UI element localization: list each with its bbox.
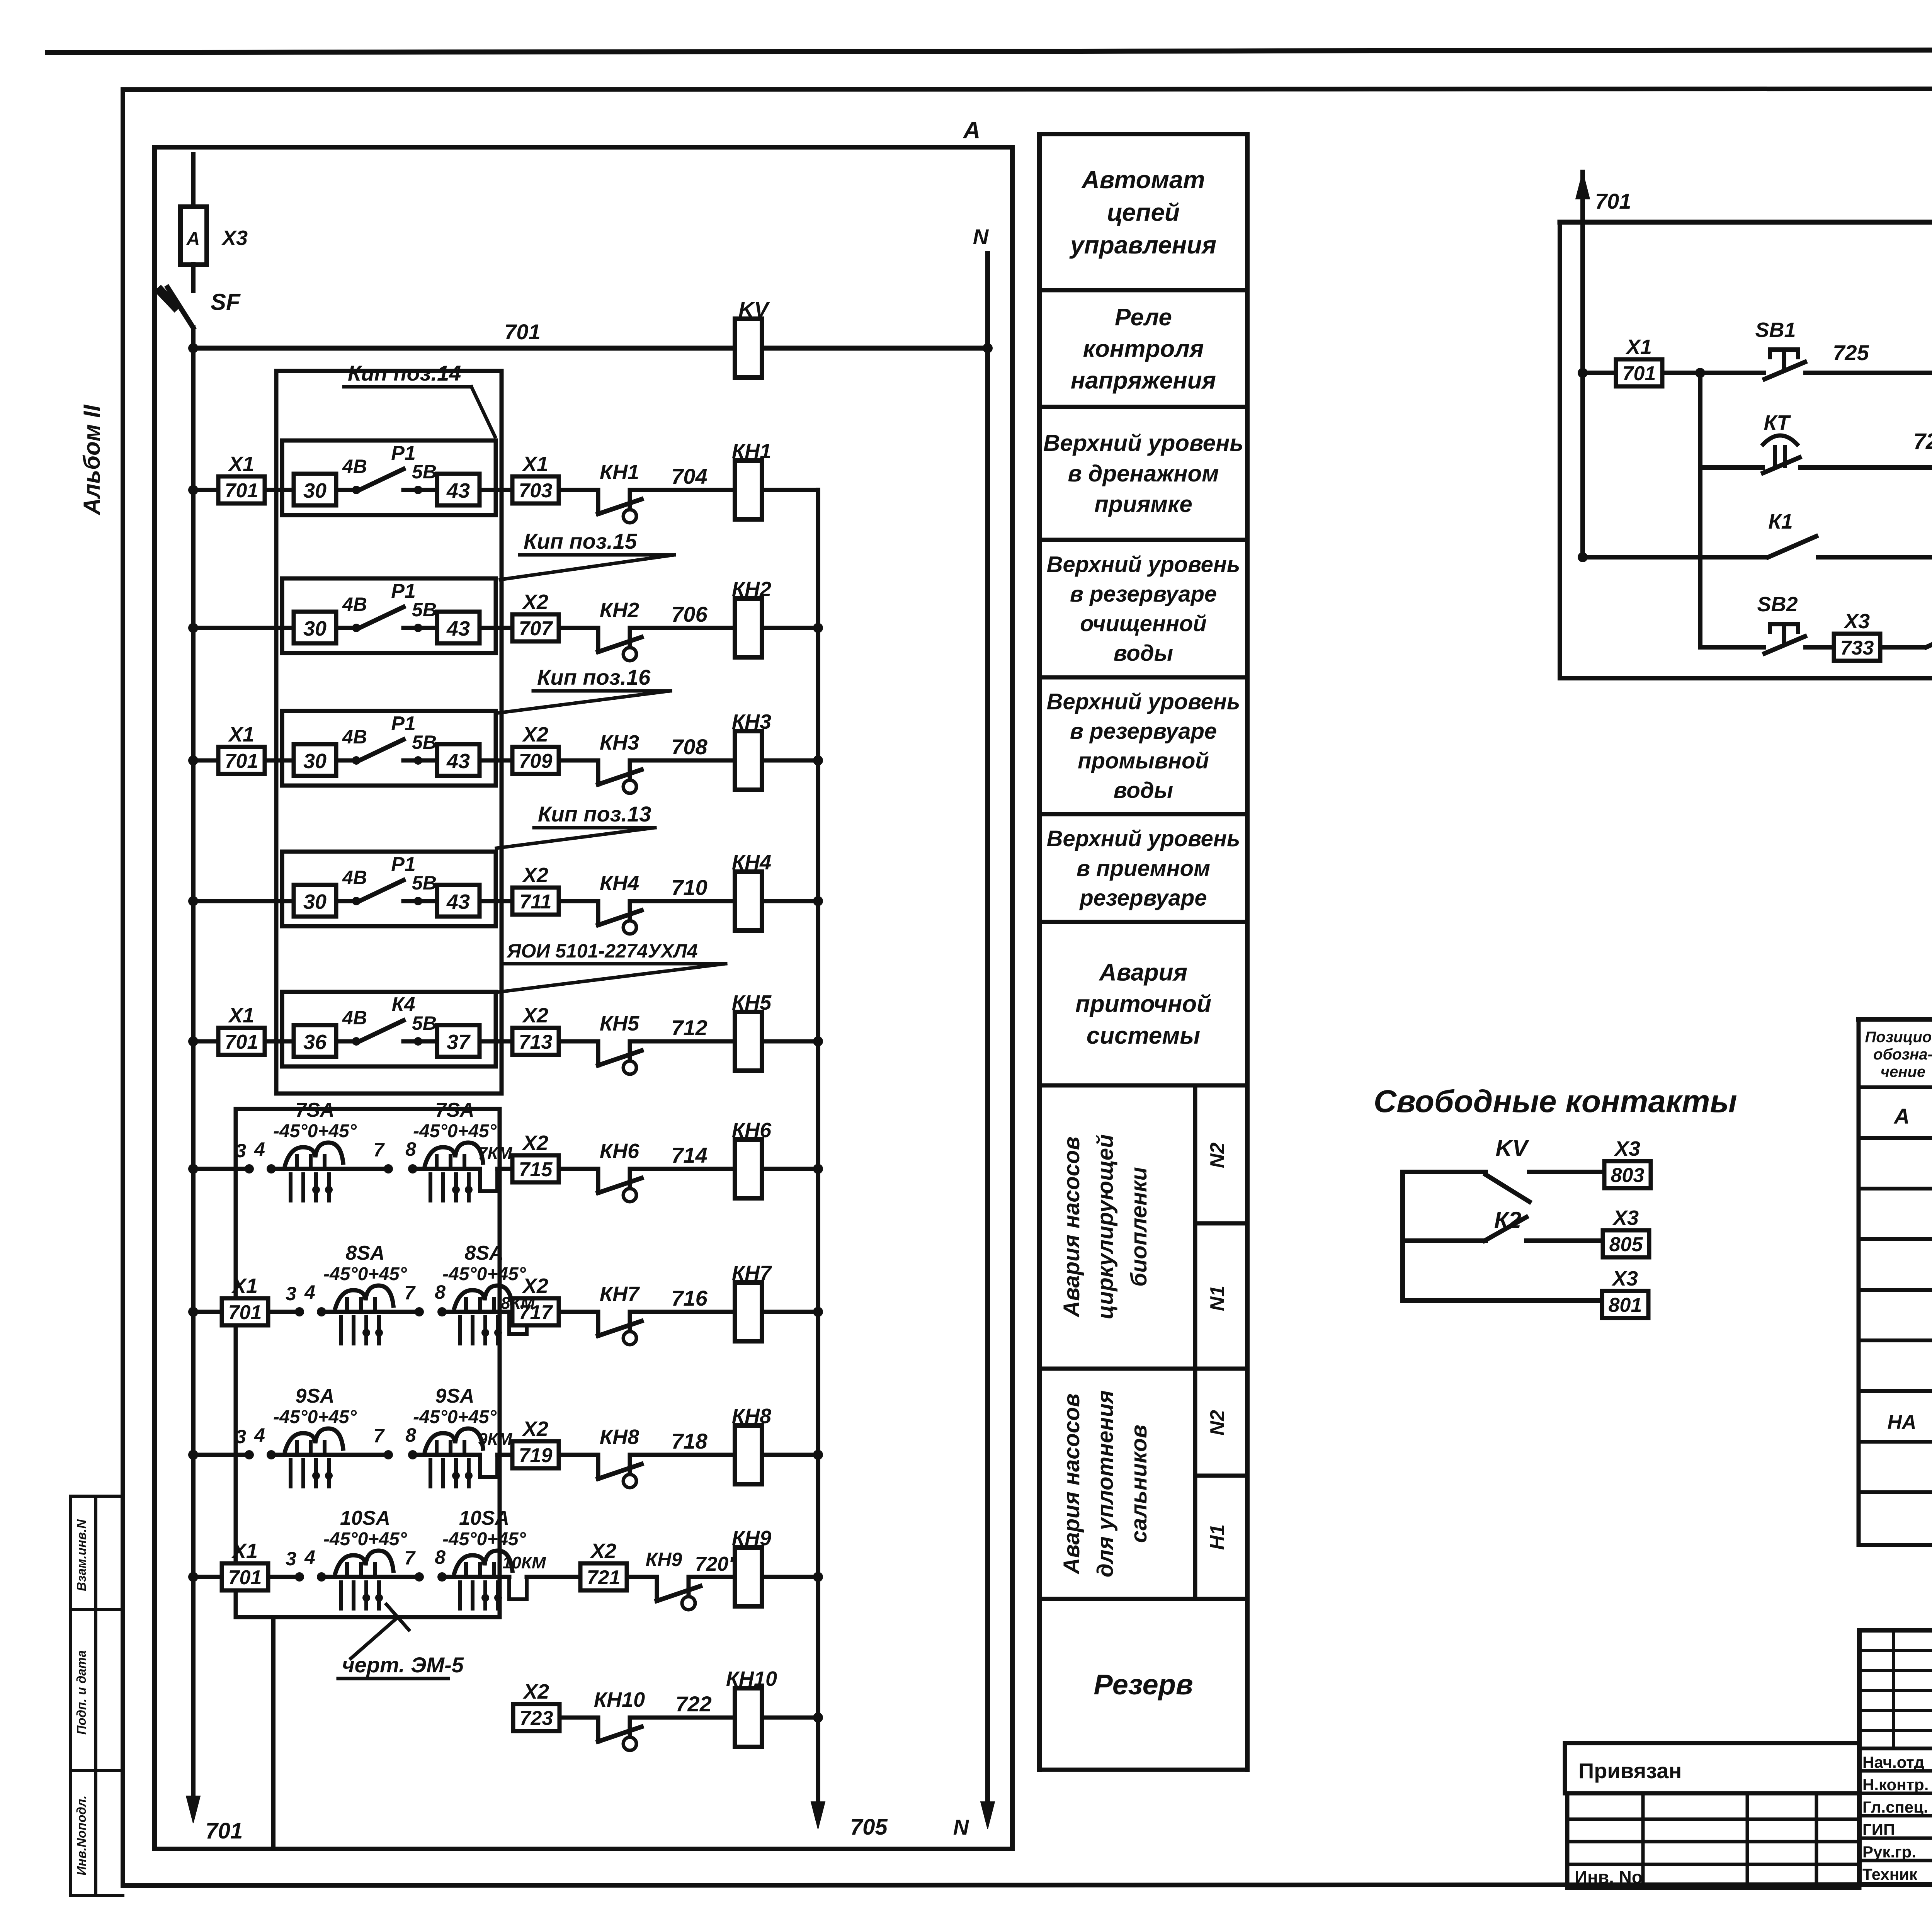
svg-text:4: 4 <box>304 1546 315 1568</box>
svg-text:Р1: Р1 <box>391 853 416 876</box>
svg-text:8: 8 <box>435 1281 446 1303</box>
svg-text:Техник: Техник <box>1862 1865 1918 1883</box>
svg-text:4В: 4В <box>342 1007 367 1029</box>
svg-text:КН5: КН5 <box>732 991 772 1014</box>
svg-text:Х3: Х3 <box>1612 1206 1639 1230</box>
svg-text:725: 725 <box>1833 340 1869 365</box>
svg-text:КН9: КН9 <box>732 1527 771 1550</box>
svg-text:сальников: сальников <box>1126 1425 1151 1543</box>
svg-text:3: 3 <box>286 1283 296 1304</box>
svg-text:Х1: Х1 <box>231 1539 258 1563</box>
svg-text:Х1: Х1 <box>228 452 254 476</box>
svg-text:-45°0+45°: -45°0+45° <box>323 1529 407 1549</box>
svg-text:Х2: Х2 <box>522 1004 548 1027</box>
svg-text:733: 733 <box>1840 637 1874 659</box>
svg-text:ГИП: ГИП <box>1862 1820 1895 1838</box>
svg-text:КН10: КН10 <box>726 1667 777 1690</box>
svg-text:4В: 4В <box>342 456 367 477</box>
svg-text:43: 43 <box>446 890 470 913</box>
svg-text:Х3: Х3 <box>1843 610 1870 633</box>
svg-text:КН7: КН7 <box>600 1282 640 1306</box>
svg-text:Нач.отд: Нач.отд <box>1862 1753 1924 1771</box>
svg-text:30: 30 <box>303 890 327 913</box>
svg-text:8SA: 8SA <box>464 1242 503 1264</box>
svg-text:КН3: КН3 <box>732 710 771 733</box>
svg-text:КН2: КН2 <box>600 599 639 622</box>
svg-text:Р1: Р1 <box>391 442 416 464</box>
svg-text:КН5: КН5 <box>600 1012 639 1035</box>
svg-text:Х3: Х3 <box>1611 1267 1638 1290</box>
svg-text:3: 3 <box>286 1548 296 1570</box>
svg-text:Авария насосов: Авария насосов <box>1059 1393 1084 1575</box>
svg-text:706: 706 <box>671 602 707 626</box>
svg-text:10КМ: 10КМ <box>502 1553 546 1572</box>
svg-text:воды: воды <box>1114 778 1173 803</box>
svg-text:3: 3 <box>235 1140 246 1162</box>
svg-text:КН4: КН4 <box>600 872 639 895</box>
svg-text:721: 721 <box>587 1566 621 1589</box>
svg-text:Рук.гр.: Рук.гр. <box>1862 1843 1916 1861</box>
svg-text:обозна-: обозна- <box>1873 1046 1932 1063</box>
svg-text:N2: N2 <box>1206 1143 1229 1168</box>
svg-text:КН6: КН6 <box>732 1119 772 1142</box>
svg-text:Х2: Х2 <box>522 864 548 887</box>
svg-text:НА: НА <box>1887 1411 1916 1434</box>
svg-text:-45°0+45°: -45°0+45° <box>442 1264 526 1284</box>
svg-text:701: 701 <box>225 1031 259 1053</box>
svg-text:Автомат: Автомат <box>1081 166 1205 194</box>
svg-text:Инв. No: Инв. No <box>1575 1867 1643 1887</box>
svg-text:708: 708 <box>671 735 707 759</box>
svg-text:Х2: Х2 <box>590 1539 616 1563</box>
svg-text:Х1: Х1 <box>228 1004 254 1027</box>
svg-text:SB1: SB1 <box>1755 318 1796 342</box>
svg-text:промывной: промывной <box>1078 748 1209 774</box>
svg-text:чение: чение <box>1881 1063 1925 1080</box>
svg-text:очищенной: очищенной <box>1080 611 1207 636</box>
svg-text:Подп. и дата: Подп. и дата <box>74 1650 88 1735</box>
svg-text:30: 30 <box>303 617 327 640</box>
svg-text:цепей: цепей <box>1107 198 1180 226</box>
svg-text:803: 803 <box>1611 1164 1645 1187</box>
svg-text:N1: N1 <box>1206 1286 1229 1311</box>
svg-text:7SA: 7SA <box>435 1099 474 1121</box>
svg-text:7: 7 <box>373 1139 385 1161</box>
svg-text:KV: KV <box>1495 1135 1529 1161</box>
svg-text:Альбом II: Альбом II <box>79 404 105 515</box>
svg-text:9SA: 9SA <box>435 1385 474 1407</box>
svg-text:SF: SF <box>211 289 241 315</box>
svg-text:-45°0+45°: -45°0+45° <box>273 1407 357 1427</box>
svg-text:Н.контр.: Н.контр. <box>1862 1776 1929 1794</box>
svg-text:напряжения: напряжения <box>1071 367 1216 394</box>
svg-text:722: 722 <box>675 1692 711 1716</box>
svg-text:Кип поз.14: Кип поз.14 <box>348 361 461 385</box>
svg-text:Верхний уровень: Верхний уровень <box>1043 430 1243 456</box>
svg-text:KV: KV <box>738 297 770 321</box>
svg-text:Верхний уровень: Верхний уровень <box>1047 689 1240 714</box>
svg-text:Верхний уровень: Верхний уровень <box>1047 826 1240 851</box>
svg-text:8SA: 8SA <box>345 1242 384 1264</box>
svg-text:К4: К4 <box>392 993 415 1016</box>
svg-text:приямке: приямке <box>1094 491 1192 517</box>
svg-text:КН4: КН4 <box>732 851 771 874</box>
svg-text:Х2: Х2 <box>522 1680 549 1703</box>
svg-text:716: 716 <box>671 1286 707 1310</box>
svg-text:30: 30 <box>303 479 327 502</box>
svg-text:701: 701 <box>225 480 259 502</box>
svg-text:5В: 5В <box>412 1012 437 1034</box>
svg-text:43: 43 <box>446 617 470 640</box>
svg-text:714: 714 <box>671 1143 707 1167</box>
svg-text:701: 701 <box>225 750 259 772</box>
svg-text:в дренажном: в дренажном <box>1068 461 1219 486</box>
svg-text:Авария: Авария <box>1099 959 1187 986</box>
svg-text:в резервуаре: в резервуаре <box>1070 719 1217 744</box>
svg-text:Х2: Х2 <box>522 723 548 746</box>
svg-text:системы: системы <box>1087 1022 1200 1049</box>
svg-text:10SA: 10SA <box>459 1507 509 1529</box>
svg-text:черт. ЭМ-5: черт. ЭМ-5 <box>342 1653 464 1677</box>
svg-text:Х1: Х1 <box>231 1274 258 1298</box>
svg-text:N: N <box>973 224 989 249</box>
svg-text:управления: управления <box>1069 231 1216 259</box>
svg-text:3: 3 <box>235 1426 246 1447</box>
svg-text:4: 4 <box>304 1281 315 1303</box>
svg-text:7SA: 7SA <box>295 1099 334 1121</box>
svg-text:КН2: КН2 <box>732 578 771 601</box>
svg-text:720': 720' <box>695 1553 734 1575</box>
svg-text:805: 805 <box>1609 1233 1643 1256</box>
svg-text:713: 713 <box>519 1031 553 1053</box>
svg-text:Свободные контакты: Свободные контакты <box>1374 1084 1737 1119</box>
svg-text:Н1: Н1 <box>1206 1524 1229 1550</box>
svg-text:Кип поз.13: Кип поз.13 <box>538 802 651 826</box>
svg-text:8: 8 <box>435 1546 446 1568</box>
svg-text:N: N <box>953 1815 969 1839</box>
svg-text:8: 8 <box>405 1138 416 1160</box>
svg-text:Х1: Х1 <box>1625 335 1652 359</box>
svg-text:9SA: 9SA <box>295 1385 334 1407</box>
svg-text:701: 701 <box>1595 189 1631 213</box>
svg-text:7: 7 <box>373 1425 385 1447</box>
svg-text:КН9: КН9 <box>646 1549 682 1570</box>
svg-text:719: 719 <box>519 1444 553 1467</box>
svg-text:-45°0+45°: -45°0+45° <box>413 1121 497 1141</box>
svg-text:Р1: Р1 <box>391 713 416 735</box>
svg-text:-45°0+45°: -45°0+45° <box>323 1264 407 1284</box>
svg-text:К2: К2 <box>1494 1207 1521 1233</box>
svg-text:А: А <box>1893 1104 1910 1128</box>
svg-text:Кип поз.16: Кип поз.16 <box>537 665 651 689</box>
svg-text:Х2: Х2 <box>522 1131 548 1155</box>
svg-text:А: А <box>186 229 200 249</box>
svg-text:КН3: КН3 <box>600 731 639 754</box>
svg-text:712: 712 <box>671 1015 707 1040</box>
svg-text:703: 703 <box>519 480 553 502</box>
svg-text:709: 709 <box>519 750 553 772</box>
svg-text:Х2: Х2 <box>522 590 548 614</box>
svg-text:ЯОИ 5101-2274УХЛ4: ЯОИ 5101-2274УХЛ4 <box>506 940 698 962</box>
svg-text:Х3: Х3 <box>1614 1137 1640 1160</box>
svg-text:КН1: КН1 <box>600 461 639 484</box>
svg-text:Позицион: Позицион <box>1865 1029 1932 1046</box>
svg-text:Авария насосов: Авария насосов <box>1059 1136 1084 1318</box>
svg-text:Х3: Х3 <box>221 226 248 250</box>
svg-text:КН8: КН8 <box>600 1425 639 1449</box>
svg-text:N2: N2 <box>1206 1410 1229 1436</box>
svg-text:циркулирующей: циркулирующей <box>1093 1134 1118 1319</box>
svg-text:729: 729 <box>1913 429 1932 454</box>
svg-text:7: 7 <box>404 1282 416 1304</box>
svg-text:4В: 4В <box>342 594 367 615</box>
svg-text:в резервуаре: в резервуаре <box>1070 582 1217 607</box>
svg-text:КН6: КН6 <box>600 1139 639 1163</box>
svg-text:30: 30 <box>303 750 327 773</box>
svg-text:Х1: Х1 <box>228 723 254 746</box>
svg-text:-45°0+45°: -45°0+45° <box>442 1529 526 1549</box>
svg-text:Верхний уровень: Верхний уровень <box>1047 552 1240 577</box>
svg-text:Х1: Х1 <box>522 452 548 476</box>
svg-text:701: 701 <box>504 320 540 344</box>
svg-text:контроля: контроля <box>1083 336 1204 362</box>
svg-text:КТ: КТ <box>1764 411 1791 434</box>
svg-text:7КМ: 7КМ <box>478 1144 513 1163</box>
svg-text:723: 723 <box>520 1707 553 1730</box>
svg-text:43: 43 <box>446 479 470 502</box>
svg-text:SВ2: SВ2 <box>1757 593 1798 616</box>
svg-text:КН10: КН10 <box>594 1688 645 1711</box>
svg-text:36: 36 <box>303 1031 327 1054</box>
svg-text:4В: 4В <box>342 867 367 888</box>
svg-text:приточной: приточной <box>1075 991 1211 1017</box>
svg-text:707: 707 <box>519 617 553 640</box>
svg-text:Х2: Х2 <box>522 1417 548 1440</box>
svg-text:10SA: 10SA <box>340 1507 390 1529</box>
svg-text:43: 43 <box>446 750 470 773</box>
svg-text:704: 704 <box>671 464 707 488</box>
svg-text:4В: 4В <box>342 726 367 748</box>
svg-text:8: 8 <box>405 1424 416 1446</box>
svg-text:37: 37 <box>447 1031 471 1054</box>
svg-text:701: 701 <box>206 1818 243 1844</box>
svg-text:КН8: КН8 <box>732 1405 771 1428</box>
svg-text:-45°0+45°: -45°0+45° <box>273 1121 357 1141</box>
svg-text:К1: К1 <box>1768 510 1793 533</box>
svg-text:в приемном: в приемном <box>1077 856 1210 881</box>
svg-text:Реле: Реле <box>1115 304 1172 331</box>
svg-text:8КМ: 8КМ <box>501 1294 536 1313</box>
svg-text:Взам.инв.N: Взам.инв.N <box>74 1519 88 1591</box>
svg-text:для уплотнения: для уплотнения <box>1093 1390 1118 1577</box>
svg-text:701: 701 <box>228 1301 262 1324</box>
svg-text:Кип поз.15: Кип поз.15 <box>524 529 637 553</box>
svg-text:715: 715 <box>519 1158 553 1181</box>
svg-text:Р1: Р1 <box>391 580 416 602</box>
svg-text:Резерв: Резерв <box>1094 1668 1193 1701</box>
svg-text:701: 701 <box>228 1566 262 1589</box>
svg-text:801: 801 <box>1609 1294 1642 1316</box>
svg-text:резервуаре: резервуаре <box>1079 885 1207 910</box>
svg-text:4: 4 <box>254 1424 265 1446</box>
svg-text:воды: воды <box>1114 641 1173 666</box>
svg-text:9КМ: 9КМ <box>478 1430 513 1449</box>
svg-text:КН1: КН1 <box>732 440 771 463</box>
svg-text:705: 705 <box>850 1815 888 1840</box>
svg-text:710: 710 <box>671 875 707 900</box>
svg-text:701: 701 <box>1622 362 1656 385</box>
svg-text:А: А <box>963 117 981 144</box>
svg-text:Гл.спец.: Гл.спец. <box>1862 1798 1928 1816</box>
svg-text:Инв.Nоподл.: Инв.Nоподл. <box>74 1795 88 1875</box>
svg-text:КН7: КН7 <box>732 1262 772 1285</box>
svg-text:7: 7 <box>404 1547 416 1569</box>
svg-text:4: 4 <box>254 1138 265 1160</box>
svg-text:711: 711 <box>520 891 552 913</box>
svg-text:718: 718 <box>671 1429 707 1453</box>
svg-text:-45°0+45°: -45°0+45° <box>413 1407 497 1427</box>
svg-text:Привязан: Привязан <box>1578 1759 1682 1783</box>
svg-text:биопленки: биопленки <box>1126 1167 1151 1287</box>
